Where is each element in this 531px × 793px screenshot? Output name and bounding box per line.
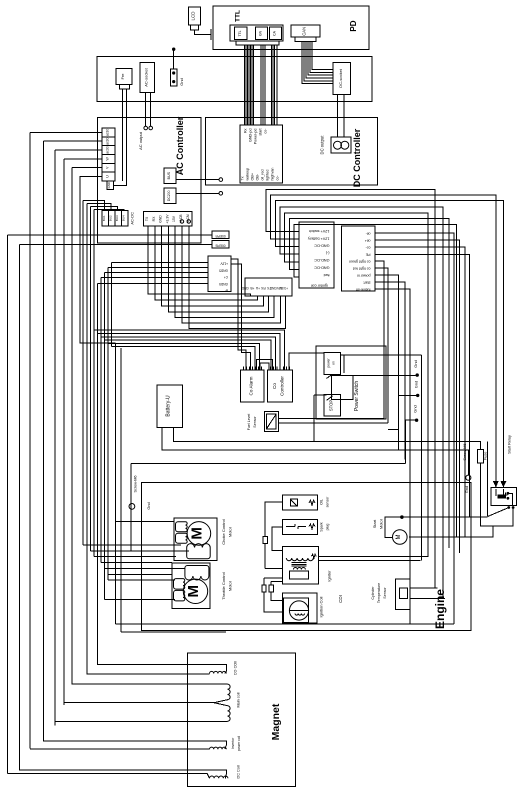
svg-text:M: M	[396, 535, 402, 540]
svg-text:12V+ battery: 12V+ battery	[308, 236, 330, 240]
connector OOEPR 1	[212, 231, 229, 238]
cylinder temperature sensor	[371, 579, 410, 610]
wire BUS out	[176, 178, 223, 182]
TTL pin 3	[270, 27, 282, 40]
svg-text:start: start	[364, 281, 371, 285]
svg-text:Controller: Controller	[280, 376, 285, 396]
ignition coil	[282, 593, 323, 623]
wire cyl sensor right	[410, 588, 445, 599]
power switch on box	[324, 353, 340, 375]
DC controller pin block U3	[240, 125, 283, 183]
terminal strip U V W ac30	[102, 128, 115, 181]
wire bundle TTL to DC controller pins	[245, 45, 278, 125]
wire power block to Co Alarm	[231, 259, 251, 370]
svg-text:Choke Control: Choke Control	[221, 519, 226, 545]
svg-text:sensor: sensor	[326, 496, 330, 508]
svg-text:Fre: Fre	[120, 73, 125, 80]
power switch outer box	[316, 346, 386, 419]
DC coil	[8, 765, 241, 779]
svg-text:RX: RX	[152, 216, 156, 221]
svg-text:Battery-U: Battery-U	[166, 395, 172, 417]
wire gnd3 run	[131, 463, 406, 551]
svg-text:GND5: GND5	[219, 268, 228, 272]
svg-text:AC-socket: AC-socket	[143, 67, 148, 86]
wire relay to motor	[385, 515, 488, 537]
svg-text:Gnd: Gnd	[413, 381, 418, 389]
svg-text:Sensor: Sensor	[253, 416, 257, 428]
svg-text:00EPB: 00EPB	[216, 243, 226, 247]
wire U cell	[80, 176, 115, 343]
svg-text:DC output: DC output	[320, 135, 325, 155]
wire bus 632	[121, 631, 226, 633]
fuse	[478, 449, 514, 526]
throttle control motor	[172, 563, 233, 608]
wire fuse1 to igniter	[265, 568, 282, 570]
svg-text:CO COIl: CO COIl	[234, 661, 238, 676]
wire bus 624	[115, 623, 454, 625]
svg-text:DC Coil: DC Coil	[237, 765, 241, 778]
svg-text:BU2: BU2	[109, 215, 113, 221]
svg-text:Motor: Motor	[228, 526, 233, 537]
svg-text:GND5: GND5	[219, 282, 228, 286]
wire OOEPR1 left	[8, 234, 213, 236]
GND box	[107, 181, 114, 190]
wire bundle AC strip to left	[30, 132, 102, 167]
svg-text:GND-DC: GND-DC	[314, 258, 329, 262]
wire DC-socket to DC output	[338, 94, 345, 137]
BUS box	[164, 168, 176, 184]
CO coil	[87, 661, 238, 676]
svg-text:DC200: DC200	[167, 190, 171, 201]
wire fuel sensor B	[278, 423, 398, 429]
svg-text:DC-socket: DC-socket	[338, 68, 343, 88]
svg-text:C+: C+	[224, 275, 228, 279]
TX RX connector	[144, 212, 193, 227]
svg-text:GN: GN	[259, 30, 263, 36]
svg-text:wakeup: wakeup	[246, 168, 250, 181]
main coil	[55, 680, 241, 721]
interface connector	[241, 278, 292, 296]
start motor	[372, 515, 407, 544]
breaker Fre	[116, 69, 132, 89]
screw-M6 left	[129, 475, 151, 509]
svg-text:oil+: oil+	[365, 239, 371, 243]
svg-text:GND: GND	[107, 182, 111, 188]
svg-text:12V+ switch: 12V+ switch	[309, 229, 330, 233]
svg-text:ac30: ac30	[105, 146, 109, 153]
svg-text:Engine: Engine	[433, 589, 447, 629]
wire DC200 out	[176, 192, 223, 196]
CDI label	[338, 595, 343, 603]
wire bundle engine interface to right side	[375, 233, 470, 624]
svg-text:LCD: LCD	[191, 11, 196, 21]
TTL pin 2	[256, 27, 268, 40]
wire bundle left verticals	[8, 132, 112, 773]
svg-text:plug: plug	[326, 524, 330, 531]
igniter	[282, 547, 331, 584]
oil sensor	[282, 495, 329, 510]
choke control motor	[174, 518, 233, 560]
svg-text:DC Controller: DC Controller	[352, 128, 362, 187]
svg-text:highvan: highvan	[271, 168, 275, 181]
wire gnd2 to battery line	[398, 395, 400, 450]
svg-text:BU1: BU1	[102, 215, 106, 221]
svg-text:co-: co-	[264, 128, 268, 134]
svg-text:Rx: Rx	[244, 128, 248, 133]
wire nest ignitor coil to right side	[266, 189, 503, 598]
spark plug	[282, 519, 329, 534]
wire vertical 115	[114, 343, 116, 624]
wire fuel sensor A	[278, 417, 384, 419]
DC-socket J3	[333, 63, 351, 95]
svg-text:power in: power in	[357, 274, 371, 278]
svg-text:+3.3V: +3.3V	[165, 214, 169, 224]
relay arrows	[494, 480, 506, 487]
svg-text:+12V: +12V	[220, 262, 228, 266]
gnd terminal 1	[353, 360, 419, 377]
svg-text:Screw-M6: Screw-M6	[133, 475, 137, 492]
inline fuse 1	[263, 537, 267, 569]
battery	[157, 385, 182, 427]
svg-text:CAN: CAN	[302, 27, 307, 36]
ignitor coil block	[299, 222, 334, 288]
Magnet box	[188, 653, 296, 786]
wire LCD to PD	[195, 29, 212, 40]
wire igniter right	[319, 557, 429, 561]
svg-text:Fuel Level: Fuel Level	[247, 414, 251, 431]
svg-text:Gnd: Gnd	[147, 502, 151, 509]
wire power on out	[340, 355, 421, 561]
wire OOEPR2 left	[19, 243, 212, 245]
svg-text:power coil: power coil	[237, 736, 241, 752]
wire gnd stub up	[172, 48, 175, 70]
svg-text:Igniter: Igniter	[327, 570, 332, 582]
svg-text:TTL: TTL	[238, 30, 242, 36]
LCD box	[189, 7, 201, 30]
svg-text:Start: Start	[372, 519, 377, 528]
DC200 box	[164, 188, 176, 204]
svg-text:Main coil: Main coil	[237, 692, 241, 707]
wire vertical 121	[115, 343, 121, 632]
svg-text:+B: +B	[250, 286, 254, 290]
wire bundle TX connector to interface connector	[148, 226, 286, 328]
svg-text:Tx: Tx	[241, 176, 245, 180]
svg-text:CA: CA	[273, 30, 277, 35]
DC Controller box	[206, 118, 378, 188]
power interface block	[208, 256, 231, 293]
svg-text:Motor: Motor	[379, 518, 384, 529]
svg-text:power: power	[327, 358, 331, 368]
svg-text:GND: GND	[241, 286, 249, 290]
svg-text:OB-: OB-	[256, 173, 260, 180]
svg-text:co-: co-	[276, 175, 280, 181]
svg-text:Power Switch: Power Switch	[354, 381, 360, 412]
power switch blades	[327, 374, 333, 400]
gnd terminal 3	[405, 405, 419, 463]
svg-text:Invertor: Invertor	[231, 737, 235, 749]
DC output connector	[320, 135, 352, 155]
wire battery bottom 2	[162, 427, 468, 475]
svg-text:00EPR: 00EPR	[215, 234, 226, 238]
CAN box	[291, 25, 320, 42]
AC output terminals	[138, 93, 153, 150]
svg-text:Gnd: Gnd	[412, 405, 417, 413]
svg-text:Cylinder: Cylinder	[371, 586, 375, 600]
AC-DC block	[102, 210, 135, 226]
svg-text:Sensor: Sensor	[383, 587, 387, 599]
ground terminal Gnd	[171, 69, 185, 86]
wire oil sensor left	[265, 502, 282, 536]
TTL pin 1	[235, 27, 248, 40]
svg-text:M: M	[185, 585, 202, 598]
Engine box	[142, 482, 471, 630]
PD box	[213, 6, 369, 50]
Co Alarm box	[241, 366, 264, 402]
svg-text:Start Relay: Start Relay	[508, 435, 512, 454]
svg-text:TTL: TTL	[235, 10, 242, 22]
wire co controller to power switch	[289, 353, 324, 370]
svg-text:co light red: co light red	[353, 267, 371, 271]
svg-text:Ignition Coil: Ignition Coil	[319, 596, 324, 617]
svg-text:B-: B-	[225, 289, 228, 293]
wire bridge co boxes	[257, 360, 273, 370]
svg-text:Gnd: Gnd	[465, 486, 469, 493]
svg-text:PE: PE	[365, 253, 370, 257]
svg-text:GND-pd: GND-pd	[249, 129, 253, 143]
svg-text:Gnd: Gnd	[179, 78, 184, 86]
start relay	[491, 435, 516, 509]
svg-text:Magnet: Magnet	[270, 703, 282, 740]
TTL label	[235, 10, 242, 22]
gnd terminal 2	[399, 381, 420, 397]
wire motor right	[409, 526, 493, 537]
wire stop feed	[314, 395, 327, 441]
wire AC-DC pins to left bundle	[83, 201, 124, 211]
wire bundle motor feeds	[83, 522, 189, 600]
engine interface block	[342, 226, 376, 292]
svg-text:BU3: BU3	[115, 215, 119, 221]
svg-text:OIL: OIL	[320, 499, 324, 505]
svg-text:Screw-M6: Screw-M6	[463, 443, 467, 460]
AC-socket J1	[140, 62, 155, 92]
svg-text:fuel/w-off: fuel/w-off	[356, 288, 371, 292]
svg-text:15V: 15V	[172, 215, 176, 222]
screw-M6 right	[463, 443, 471, 493]
svg-text:AC output: AC output	[138, 131, 143, 150]
svg-text:Co Alarm: Co Alarm	[248, 376, 253, 395]
svg-text:oil-: oil-	[365, 232, 371, 236]
svg-text:co-: co-	[365, 246, 371, 250]
svg-text:oil_red: oil_red	[261, 169, 265, 180]
fuel level sensor	[247, 412, 278, 432]
wire bundle CAN to DC-socket	[302, 42, 333, 84]
TX pin circles	[180, 220, 190, 223]
AC Controller box	[98, 116, 202, 243]
svg-text:AC Controller: AC Controller	[175, 116, 185, 175]
Co Controller box	[268, 366, 293, 402]
wire battery bottom 1	[173, 427, 480, 449]
svg-text:+ACB: +ACB	[179, 214, 183, 224]
inline fuse 2	[262, 578, 282, 612]
outlet panel box	[97, 57, 372, 102]
svg-text:AC-DC: AC-DC	[130, 212, 135, 225]
svg-text:Temperature: Temperature	[377, 583, 381, 603]
svg-text:ac30: ac30	[105, 137, 109, 144]
svg-text:BUS: BUS	[167, 171, 171, 179]
svg-text:Motor: Motor	[228, 580, 233, 591]
wire bundle power block to left	[98, 262, 209, 283]
svg-text:Gnd: Gnd	[413, 360, 418, 368]
svg-text:CDI: CDI	[338, 595, 343, 603]
svg-text:ac30: ac30	[105, 129, 109, 136]
svg-text:lighted: lighted	[266, 170, 270, 181]
relay blade diagonal	[488, 441, 509, 516]
svg-text:Co: Co	[272, 383, 277, 389]
svg-text:on: on	[332, 361, 336, 365]
svg-text:TX: TX	[145, 216, 149, 221]
svg-text:GND-DC: GND-DC	[314, 266, 329, 270]
wire GND to Fre	[114, 89, 127, 186]
svg-text:PD: PD	[349, 20, 358, 31]
svg-text:start: start	[259, 129, 263, 136]
svg-text:Spark: Spark	[320, 522, 324, 532]
inverter power coil	[30, 736, 241, 752]
svg-text:M: M	[189, 527, 206, 540]
wire spark plug left	[272, 527, 282, 551]
connector OOEPR 2	[212, 241, 229, 248]
svg-text:OB+: OB+	[251, 173, 255, 180]
svg-text:Throttle Control: Throttle Control	[221, 572, 226, 600]
wire bundle left to CO boxes	[94, 330, 285, 370]
svg-text:GND: GND	[159, 215, 163, 223]
svg-text:fwd: fwd	[324, 273, 330, 277]
svg-text:STOP: STOP	[329, 400, 334, 412]
power switch mid box	[332, 375, 353, 399]
svg-text:ignitor coil: ignitor coil	[311, 284, 328, 288]
svg-text:Fuse: Fuse	[484, 452, 488, 460]
svg-text:co light green: co light green	[349, 260, 371, 264]
svg-text:GND-DC: GND-DC	[314, 244, 329, 248]
TTL connector U2	[230, 25, 283, 45]
power switch stop box	[324, 395, 340, 417]
svg-text:Power-pd: Power-pd	[254, 129, 258, 145]
svg-text:BU4: BU4	[122, 215, 126, 221]
